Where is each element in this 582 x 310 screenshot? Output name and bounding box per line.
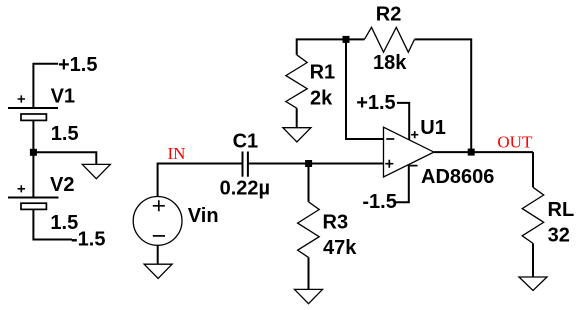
resistor R2: [364, 27, 414, 52]
node junction R1/R2: [343, 36, 350, 43]
svg-text:+1.5: +1.5: [356, 92, 395, 114]
wire R3 to ground: [308, 257, 310, 289]
ground (supply midpoint): [82, 164, 110, 178]
svg-text:AD8606: AD8606: [421, 166, 494, 188]
svg-text:47k: 47k: [323, 237, 357, 259]
wire op-amp output: [434, 151, 533, 153]
svg-text:V1: V1: [51, 85, 75, 107]
wire junction down to R3: [308, 164, 310, 202]
capacitor C1: [243, 152, 248, 177]
ground (R3): [295, 289, 323, 303]
node junction output: [468, 149, 475, 156]
svg-text:2k: 2k: [310, 88, 333, 110]
svg-text:R3: R3: [323, 211, 349, 233]
wire RL to ground: [532, 243, 534, 277]
wire midpoint to ground: [33, 152, 96, 164]
svg-text:R1: R1: [310, 62, 336, 84]
battery V1: [8, 95, 58, 120]
svg-text:OUT: OUT: [497, 132, 533, 151]
node junction V1/V2 midpoint: [30, 149, 37, 156]
wire C1 right plate to op-amp non-inverting input: [248, 163, 384, 165]
wire -1.5 to op-amp bottom supply pin: [395, 164, 409, 203]
wire V1 bottom to V2 top: [32, 120, 34, 197]
svg-text:18k: 18k: [373, 52, 407, 74]
ground (R1): [283, 128, 311, 142]
svg-text:1.5: 1.5: [51, 123, 79, 145]
wire junction down to inverting input: [346, 39, 384, 139]
op-amp inverting input marker: [386, 138, 394, 140]
op-amp positive supply marker: [411, 131, 418, 138]
wire +1.5 to op-amp top supply pin: [397, 103, 409, 142]
wire V2 bottom to -1.5 label: [33, 209, 72, 239]
svg-text:0.22µ: 0.22µ: [220, 177, 270, 199]
ground (Vin): [144, 264, 172, 278]
op-amp negative supply marker: [410, 165, 418, 167]
resistor R3: [298, 202, 320, 258]
svg-text:Vin: Vin: [188, 205, 219, 227]
svg-text:32: 32: [548, 225, 570, 247]
wire R1 bottom to ground: [296, 108, 298, 128]
battery V2: [8, 185, 59, 209]
op-amp U1 triangle: [384, 127, 434, 177]
svg-text:V2: V2: [50, 174, 74, 196]
wire output down to RL: [532, 152, 534, 187]
node junction C1/R3: [305, 160, 312, 167]
wire Vin bottom to ground: [157, 245, 159, 264]
svg-text:IN: IN: [168, 144, 186, 163]
ground (RL): [519, 277, 547, 291]
svg-text:+1.5: +1.5: [58, 54, 97, 76]
svg-text:RL: RL: [548, 199, 575, 221]
voltage source Vin: [133, 197, 182, 246]
svg-text:C1: C1: [233, 131, 259, 153]
wire V1 top to +1.5 label: [33, 64, 58, 108]
wire R2 right to output node: [415, 39, 472, 152]
svg-text:-1.5: -1.5: [362, 191, 396, 213]
svg-text:U1: U1: [420, 117, 446, 139]
op-amp non-inverting input marker: [385, 160, 393, 168]
wire Vin to C1 left plate: [158, 164, 243, 197]
svg-text:-1.5: -1.5: [71, 228, 105, 250]
resistor R1: [286, 55, 307, 108]
resistor RL: [522, 187, 544, 243]
wire R1 top / R2 left rail: [297, 39, 365, 54]
svg-text:R2: R2: [376, 3, 402, 25]
